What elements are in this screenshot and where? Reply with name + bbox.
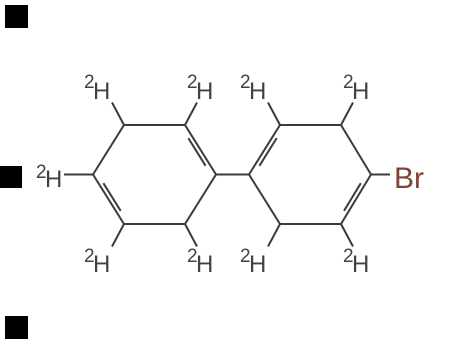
watermark square middle-left	[0, 166, 22, 188]
watermark square bottom-left	[5, 316, 28, 339]
right benzene ring	[249, 125, 371, 224]
bond right-ring NW C-D	[268, 103, 280, 126]
bond to Br	[371, 174, 390, 176]
svg-text:H: H	[45, 166, 62, 193]
svg-text:H: H	[93, 251, 110, 278]
right ring double bond SE inner line	[344, 183, 361, 211]
bond left-ring NW C-D	[112, 103, 124, 126]
bond left-ring SW C-D	[112, 224, 124, 247]
svg-text:H: H	[352, 78, 369, 105]
bond left-ring SE C-D	[185, 224, 197, 247]
bond left-ring NE C-D	[185, 103, 197, 126]
svg-text:H: H	[249, 251, 266, 278]
bond to west 2H	[64, 174, 93, 176]
bond right-ring NE C-D	[341, 103, 353, 126]
right ring double bond NW inner line	[259, 138, 276, 166]
biphenyl connecting bond	[216, 174, 249, 176]
bond right-ring SW C-D	[268, 224, 280, 247]
left benzene ring	[93, 125, 216, 224]
svg-text:Br: Br	[394, 162, 424, 195]
svg-text:H: H	[196, 251, 213, 278]
left ring double bond NE inner line	[188, 138, 205, 166]
bond right-ring SE C-D	[341, 224, 353, 247]
svg-text:H: H	[352, 251, 369, 278]
watermark square top-left	[5, 5, 28, 28]
svg-text:H: H	[93, 78, 110, 105]
svg-text:H: H	[196, 78, 213, 105]
left ring double bond SW inner line	[103, 183, 120, 211]
svg-text:H: H	[249, 78, 266, 105]
